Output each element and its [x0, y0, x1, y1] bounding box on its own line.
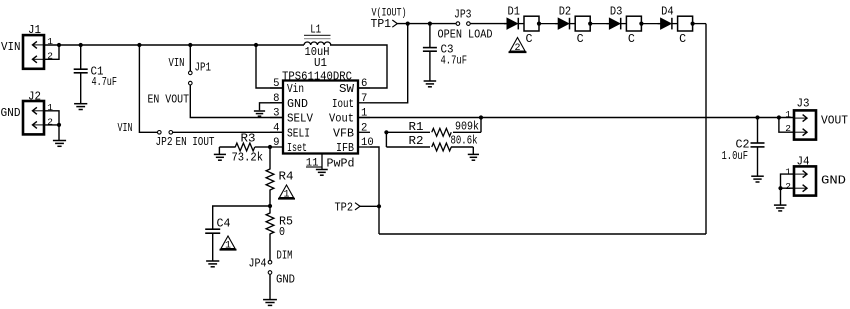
wire U1 Vin pin5	[256, 45, 283, 88]
svg-text:2: 2	[361, 123, 367, 135]
resistor R1	[386, 120, 481, 136]
svg-text:JP2: JP2	[156, 136, 173, 149]
junction TP2	[377, 204, 381, 208]
svg-text:3: 3	[273, 108, 279, 120]
svg-text:1: 1	[47, 36, 53, 47]
svg-text:C: C	[577, 33, 584, 46]
ground U1 PwPd	[316, 170, 328, 176]
ground R2	[468, 154, 479, 160]
junction R1 Vout	[479, 115, 483, 119]
svg-text:Vin: Vin	[287, 83, 304, 96]
wire bottom return	[379, 233, 706, 235]
wire R2 ground stub	[472, 147, 474, 154]
svg-text:1.0uF: 1.0uF	[722, 150, 749, 163]
svg-text:R1: R1	[409, 121, 424, 134]
wire to C4	[213, 206, 270, 229]
U1 left pin 3 SELV	[270, 108, 313, 126]
wire TP1 rail	[397, 23, 457, 25]
U1 pin 11 PwPd	[306, 154, 355, 171]
svg-text:R3: R3	[241, 133, 256, 146]
warning triangle 1 at C4	[220, 236, 237, 251]
inductor L1	[304, 24, 331, 60]
warning triangle 2 at D1	[509, 38, 527, 54]
ground C3	[424, 81, 437, 87]
jumper JP4	[249, 250, 296, 287]
resistor R3	[219, 133, 270, 165]
test point TP1	[371, 8, 407, 32]
svg-text:4.7uF: 4.7uF	[441, 55, 468, 68]
svg-text:SW: SW	[339, 83, 354, 96]
U1 right pin 7 Iout	[332, 93, 370, 111]
U1 left pin 5 Vin	[270, 78, 304, 96]
wire JP1 to EN VOUT to SELV pin3	[190, 85, 283, 118]
svg-text:R4: R4	[279, 171, 294, 184]
svg-text:1: 1	[283, 189, 289, 200]
svg-text:GND: GND	[287, 98, 308, 111]
wire Vout rail	[358, 117, 794, 119]
svg-text:VOUT: VOUT	[821, 115, 848, 128]
LED package D4	[672, 16, 706, 46]
connector J3	[785, 98, 848, 140]
junction VIN drop	[137, 43, 141, 47]
wire J4 pins tie	[781, 174, 795, 188]
svg-text:D4: D4	[661, 6, 674, 19]
svg-text:C4: C4	[217, 218, 231, 231]
resistor R4	[266, 147, 293, 206]
svg-text:DIM: DIM	[277, 250, 293, 263]
jumper JP3	[438, 9, 493, 42]
svg-text:Iset: Iset	[287, 142, 307, 155]
U1 right pin 1 Vout	[329, 108, 370, 126]
svg-text:73.2k: 73.2k	[232, 152, 264, 165]
svg-text:1: 1	[785, 167, 791, 178]
svg-text:7: 7	[361, 93, 367, 105]
ground J4	[774, 205, 787, 211]
svg-text:VIN: VIN	[169, 57, 185, 70]
svg-text:1: 1	[785, 109, 791, 120]
svg-text:GND: GND	[276, 274, 295, 287]
svg-text:TP1: TP1	[371, 18, 392, 31]
svg-text:OPEN LOAD: OPEN LOAD	[438, 28, 493, 42]
svg-text:J4: J4	[797, 156, 810, 169]
U1 right pin 2 VFB	[333, 123, 370, 141]
U1 left pin 9 Iset	[270, 137, 307, 155]
svg-text:Vout: Vout	[329, 113, 354, 126]
svg-text:D3: D3	[610, 6, 623, 19]
wire JP3 to D1	[470, 23, 507, 25]
svg-text:EN VOUT: EN VOUT	[148, 94, 190, 107]
wire J1 pin2 tie	[44, 45, 59, 59]
svg-text:JP1: JP1	[195, 62, 212, 75]
diode D1	[504, 6, 520, 30]
svg-text:VIN: VIN	[1, 41, 21, 54]
junction C3 tap	[428, 22, 432, 26]
svg-text:L1: L1	[310, 24, 321, 37]
resistor R2	[386, 134, 477, 151]
wire TP2	[360, 205, 379, 207]
label EN VOUT	[148, 94, 190, 107]
svg-text:1: 1	[225, 240, 231, 251]
svg-text:JP3: JP3	[454, 9, 472, 22]
junction J2 pin2	[57, 123, 61, 127]
capacitor C4	[205, 218, 230, 261]
wire Iout pin7 riser	[370, 24, 408, 103]
svg-text:5: 5	[273, 78, 279, 90]
svg-text:EN IOUT: EN IOUT	[176, 136, 215, 149]
junction J4 pin2	[778, 186, 782, 190]
svg-text:J3: J3	[797, 98, 810, 111]
svg-text:6: 6	[361, 78, 367, 90]
wire JP4 to ground	[269, 274, 271, 299]
jumper JP1	[169, 57, 212, 85]
junction C1 tap	[79, 43, 83, 47]
junction VFB	[384, 130, 388, 134]
wire LED return right	[705, 24, 707, 234]
LED package D1	[518, 16, 558, 46]
svg-text:0: 0	[279, 226, 285, 239]
svg-text:R2: R2	[409, 135, 424, 148]
svg-text:11: 11	[306, 158, 319, 170]
diode D2	[555, 6, 571, 30]
svg-text:80.6k: 80.6k	[451, 134, 478, 147]
wire IFB drop	[370, 147, 379, 234]
svg-text:IFB: IFB	[336, 142, 354, 155]
svg-text:2: 2	[47, 117, 53, 128]
junction J1 pins	[57, 43, 61, 47]
ground U1 GND	[254, 111, 265, 116]
ground R3	[214, 154, 226, 160]
resistor R5	[266, 206, 293, 260]
capacitor C2	[722, 118, 765, 177]
svg-text:2: 2	[47, 51, 53, 62]
svg-text:SELI: SELI	[287, 127, 310, 140]
svg-text:D1: D1	[508, 6, 521, 19]
svg-text:C: C	[679, 33, 686, 46]
junction Iset	[268, 145, 272, 149]
wire J3 pin2 tie	[779, 118, 794, 133]
capacitor C1	[74, 45, 117, 104]
svg-text:PwPd: PwPd	[327, 158, 355, 171]
U1 left pin 8 GND	[270, 93, 308, 111]
ground J2	[53, 141, 66, 147]
ground C1	[74, 104, 87, 110]
U1 left pin 4 SELI	[270, 123, 310, 141]
junction Iout tap	[406, 22, 410, 26]
svg-text:C: C	[628, 33, 635, 46]
junction C2	[755, 115, 759, 119]
svg-text:J1: J1	[28, 24, 41, 37]
LED package D2	[570, 16, 610, 46]
junction J3 pins	[777, 115, 781, 119]
wire J2 pins tie	[44, 111, 59, 125]
svg-text:909k: 909k	[455, 120, 479, 133]
IC U1 box	[282, 57, 358, 154]
connector J2	[1, 91, 54, 135]
svg-text:JP4: JP4	[249, 258, 267, 271]
test point TP2	[335, 202, 361, 215]
wire JP1 top	[189, 45, 191, 71]
svg-text:4.7uF: 4.7uF	[92, 76, 118, 89]
ground C2	[751, 176, 764, 182]
U1 right pin 10 IFB	[336, 137, 374, 155]
svg-text:Iout: Iout	[332, 98, 354, 111]
wire L1 to SW corner	[330, 45, 387, 88]
ground C4	[206, 261, 219, 267]
svg-text:2: 2	[785, 181, 791, 192]
wire VIN to JP2	[139, 45, 157, 132]
junction R4 R5 C4	[268, 204, 272, 208]
ground JP4	[263, 300, 277, 306]
svg-text:VFB: VFB	[333, 127, 354, 140]
svg-text:C: C	[526, 33, 533, 46]
capacitor C3	[423, 24, 467, 81]
svg-text:9: 9	[273, 137, 279, 149]
wire VFB to R2	[385, 132, 387, 147]
LED package D3	[621, 16, 661, 46]
svg-text:J2: J2	[28, 91, 41, 104]
svg-text:VIN: VIN	[118, 122, 133, 135]
svg-text:2: 2	[785, 123, 791, 134]
wire R1 to Vout	[480, 118, 482, 133]
jumper JP2	[118, 122, 215, 149]
warning triangle 1 at R4	[278, 185, 295, 200]
junction U1 Vin tap	[254, 43, 258, 47]
svg-text:TPS61140DRC: TPS61140DRC	[282, 71, 352, 84]
wire J4 to ground	[780, 188, 782, 205]
diode D3	[606, 6, 622, 30]
connector J1	[1, 24, 53, 69]
svg-text:GND: GND	[1, 107, 21, 120]
wire JP2 to SELI pin4	[173, 131, 284, 133]
svg-text:GND: GND	[821, 175, 846, 188]
svg-text:4: 4	[273, 123, 279, 135]
svg-text:D2: D2	[559, 6, 572, 19]
diode D4	[658, 6, 674, 30]
wire J2 to ground	[58, 125, 60, 140]
svg-text:SELV: SELV	[287, 113, 313, 126]
wire GND pin8	[260, 103, 284, 110]
U1 right pin 6 SW	[339, 78, 370, 96]
wire R3 ground stub	[218, 147, 220, 154]
wire VIN rail from J1 to L1	[44, 44, 304, 46]
junction JP1 tap	[188, 43, 192, 47]
svg-text:U1: U1	[314, 57, 327, 70]
svg-text:TP2: TP2	[335, 202, 354, 215]
connector J4	[785, 156, 846, 196]
svg-text:2: 2	[514, 43, 520, 54]
